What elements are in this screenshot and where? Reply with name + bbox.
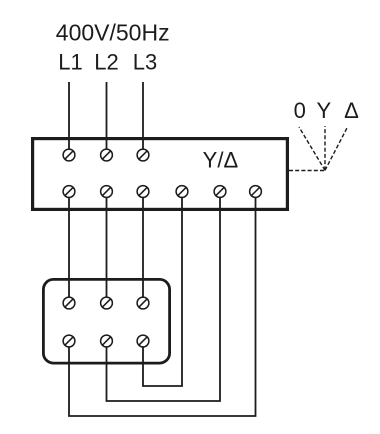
svg-text:0: 0: [294, 98, 306, 123]
motor terminal V1 (top row 2): [101, 297, 113, 309]
svg-text:Δ: Δ: [344, 98, 359, 123]
switch S1 enclosure (Y/Delta switch box): [33, 139, 288, 210]
motor terminal W1 (top row 3): [137, 297, 149, 309]
svg-text:400V/50Hz: 400V/50Hz: [56, 20, 170, 46]
selector dashed pointer line to position Delta: [325, 127, 348, 170]
switch terminal bottom 6: [250, 186, 262, 198]
selector dashed link line to switch box: [289, 170, 325, 172]
svg-text:L2: L2: [94, 50, 118, 75]
wire motor terminal V2 to switch terminal bottom 4: [143, 198, 182, 386]
switch terminal top 2: [101, 149, 113, 161]
switch terminal bottom 3: [137, 186, 149, 198]
wire L3 to switch: [142, 82, 144, 149]
wire switch terminal bottom 2 to motor terminal V1: [106, 198, 108, 297]
selector dashed pointer line to position Y: [324, 126, 326, 170]
motor terminal W2 (bottom row 1): [63, 335, 75, 347]
wire L2 to switch: [106, 82, 108, 149]
svg-text:L3: L3: [133, 50, 157, 75]
wire L1 to switch: [68, 82, 70, 149]
selector dashed pointer line to position 0: [299, 127, 325, 170]
motor terminal V2 (bottom row 3): [137, 335, 149, 347]
motor terminal U2 (bottom row 2): [101, 335, 113, 347]
svg-text:Y/Δ: Y/Δ: [203, 148, 239, 173]
motor terminal box M1: [43, 279, 169, 363]
switch terminal bottom 2: [101, 186, 113, 198]
switch terminal bottom 1: [63, 186, 75, 198]
switch terminal top 3: [137, 149, 149, 161]
motor terminal U1 (top row 1): [63, 297, 75, 309]
wire motor terminal U2 to switch terminal bottom 5: [107, 198, 221, 401]
switch terminal bottom 4: [176, 186, 188, 198]
svg-text:L1: L1: [58, 50, 82, 75]
wire switch terminal bottom 1 to motor terminal U1: [68, 198, 70, 297]
svg-text:Y: Y: [316, 98, 331, 123]
switch terminal bottom 5: [214, 186, 226, 198]
wire switch terminal bottom 3 to motor terminal W1: [142, 198, 144, 297]
wire motor terminal W2 to switch terminal bottom 6: [69, 198, 256, 416]
switch terminal top 1: [63, 149, 75, 161]
